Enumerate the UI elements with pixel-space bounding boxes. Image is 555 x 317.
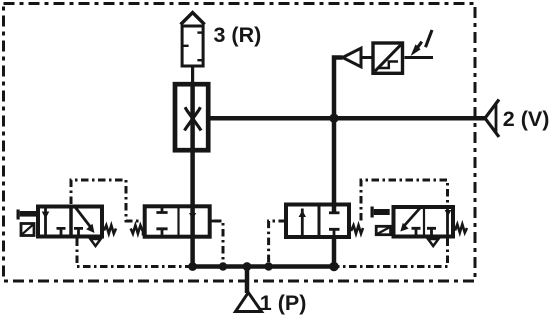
svg-text:3 (R): 3 (R) [214,23,262,47]
svg-text:2 (V): 2 (V) [503,107,550,131]
svg-text:1 (P): 1 (P) [260,291,307,315]
